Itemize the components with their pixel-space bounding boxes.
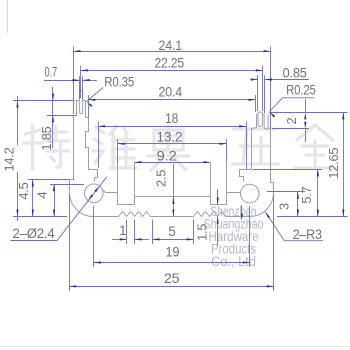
dim 22.25 (80, 66, 82, 98)
svg-text:13.2: 13.2 (156, 129, 182, 144)
dim 4 left (50, 184, 84, 186)
dim 12.65 right overall height (277, 216, 348, 218)
dim 14.2 left overall height (13, 100, 75, 102)
svg-text:1: 1 (119, 223, 126, 238)
hole right 2.4 dia (241, 184, 260, 203)
svg-text:R0.25: R0.25 (286, 83, 316, 98)
svg-text:0.85: 0.85 (283, 65, 307, 80)
svg-text:20.4: 20.4 (159, 85, 183, 100)
profile floor left section (103, 191, 118, 193)
small arrow at right serration end (241, 205, 243, 220)
dim 19 hole spacing (93, 206, 95, 267)
svg-text:4.5: 4.5 (16, 182, 31, 199)
dim 0.7 top-left slot (79, 76, 81, 99)
profile groove right (211, 163, 227, 205)
dim 5 between serration groups (152, 220, 154, 245)
dim 13.2 (117, 139, 119, 163)
svg-text:R0.35: R0.35 (104, 75, 134, 90)
profile left wall (77, 100, 86, 102)
dim 3 right corner height (267, 191, 305, 193)
hole left 2.4 dia (85, 184, 104, 203)
dim 24.1 top (73, 47, 75, 115)
svg-text:5: 5 (168, 224, 175, 239)
svg-text:3: 3 (277, 203, 292, 210)
svg-text:2: 2 (284, 117, 299, 124)
dim 18 (98, 122, 100, 168)
svg-text:1.5: 1.5 (195, 224, 210, 241)
svg-text:5.7: 5.7 (299, 186, 314, 203)
svg-text:1.85: 1.85 (39, 126, 54, 150)
profile bottom edge with serrations (94, 212, 250, 217)
svg-text:2–R3: 2–R3 (293, 227, 322, 242)
dim 0.85 top-right slot (257, 75, 259, 111)
dim 1.85 left neck (47, 115, 76, 117)
svg-text:22.25: 22.25 (154, 56, 184, 71)
label R0.25 with leader (270, 98, 315, 112)
frame line top-left (7, 0, 9, 33)
profile floor right section (227, 192, 241, 194)
svg-text:4: 4 (34, 191, 49, 198)
profile left bottom corner R3 arc (70, 193, 94, 217)
dim 5.7 right (253, 169, 322, 171)
watermark chinese characters (light gray, hand-drawn strokes) (24, 125, 336, 170)
dim 4.5 left (28, 179, 69, 181)
dim 1 serration pitch (126, 220, 128, 245)
svg-text:25: 25 (164, 271, 180, 286)
svg-text:9.2: 9.2 (157, 149, 177, 164)
svg-text:0.7: 0.7 (45, 65, 58, 80)
svg-text:24.1: 24.1 (159, 38, 183, 53)
frame line bottom (0, 346, 350, 348)
dim 20.4 (88, 95, 90, 117)
profile floor center (135, 196, 211, 198)
profile right bottom corner R3 arc (250, 193, 274, 217)
svg-text:2.5: 2.5 (154, 170, 169, 187)
svg-text:14.2: 14.2 (1, 147, 16, 171)
dim 1.5 serration depth (217, 189, 219, 205)
svg-text:18: 18 (165, 111, 178, 126)
label R0.35 with leader (86, 88, 103, 102)
svg-text:12.65: 12.65 (326, 148, 341, 179)
dim 2.5 rib height (173, 164, 175, 217)
profile right wall (257, 114, 269, 116)
dim 25 overall width (69, 194, 71, 291)
svg-text:19: 19 (165, 245, 179, 260)
profile groove left (118, 163, 135, 205)
dim 9.2 (135, 162, 211, 164)
svg-text:2–Ø2.4: 2–Ø2.4 (13, 226, 56, 241)
dim 2 right wall notch depth (269, 112, 348, 114)
